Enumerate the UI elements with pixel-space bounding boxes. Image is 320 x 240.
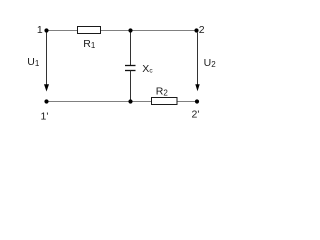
resistor R2 (152, 98, 178, 105)
svg-text:1': 1' (41, 110, 49, 122)
label Xc (142, 63, 153, 75)
resistor R1 (78, 27, 101, 34)
label node 1' (41, 110, 49, 122)
node 1' terminal dot (44, 99, 48, 103)
voltage arrow U1 (44, 33, 49, 92)
capacitor Xc (125, 66, 136, 71)
svg-text:2: 2 (199, 24, 205, 36)
label U2 (204, 57, 217, 69)
voltage arrow U2 (195, 33, 199, 92)
svg-text:2': 2' (192, 109, 200, 121)
junction bottom (node 1' / Xc / R2) (128, 99, 132, 103)
wire middle branch lower lead (130, 71, 132, 102)
wire middle branch upper lead (130, 31, 132, 66)
node 2' terminal dot (195, 99, 199, 103)
svg-text:1: 1 (37, 24, 43, 36)
label node 2 (199, 24, 205, 36)
label R1 (83, 38, 96, 50)
wire top (node 1 to node 2 through R1) (47, 30, 197, 32)
label node 2' (192, 109, 200, 121)
node 2 terminal dot (194, 28, 198, 32)
label node 1 (37, 24, 43, 36)
junction top (R1 / Xc / node 2) (128, 28, 132, 32)
label R2 (156, 86, 169, 98)
node 1 terminal dot (44, 28, 48, 32)
label U1 (27, 56, 40, 68)
wire bottom (node 1' to node 2' through R2) (47, 101, 197, 103)
